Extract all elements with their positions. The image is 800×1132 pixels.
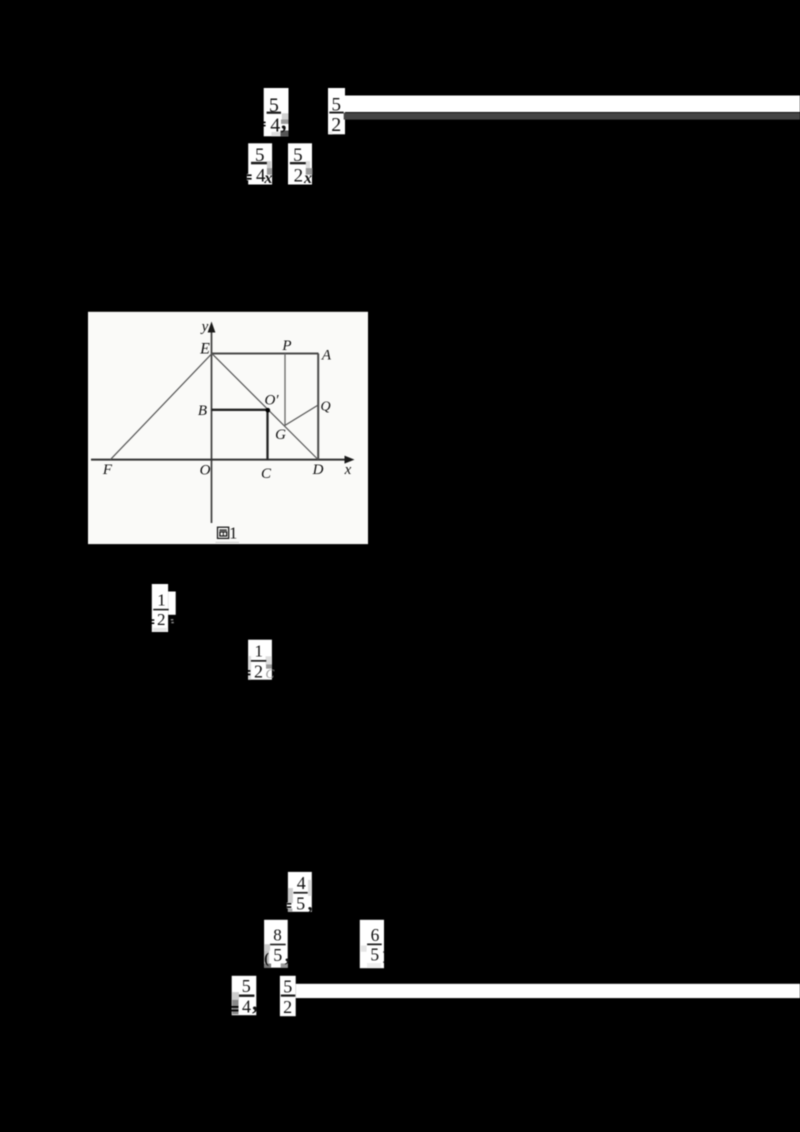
svg-text:,: , [308, 893, 313, 915]
diagonal F-E [110, 354, 212, 460]
svg-text:2: 2 [254, 661, 263, 681]
white band row1 [345, 96, 800, 113]
fraction box B5 1/2 [152, 584, 176, 632]
fraction box B6 1/2 [248, 640, 275, 682]
svg-text:4: 4 [242, 996, 251, 1016]
segment G-Q [285, 405, 318, 426]
svg-text:C: C [265, 666, 274, 681]
svg-text:x: x [303, 170, 312, 187]
segment O'-C [266, 410, 268, 460]
svg-text:2: 2 [283, 997, 292, 1017]
svg-text:2: 2 [331, 114, 341, 136]
svg-text:C: C [261, 466, 272, 482]
x-axis [91, 459, 346, 461]
svg-text:,: , [285, 945, 290, 967]
svg-text:P: P [281, 338, 291, 354]
svg-text:E: E [199, 341, 210, 358]
rectangle right edge A-D [317, 354, 319, 460]
fraction box B3 5/4 row2 [247, 143, 273, 187]
caption faint underline [216, 541, 240, 544]
fraction box B11 5/2 [280, 976, 296, 1017]
svg-text:O′: O′ [264, 393, 279, 409]
segment B-O' [212, 409, 268, 411]
svg-text:B: B [198, 403, 207, 419]
fraction box B1 5/4 row1 [263, 88, 288, 136]
svg-text:5: 5 [273, 945, 282, 965]
svg-text:1: 1 [157, 591, 166, 610]
svg-text:8: 8 [273, 926, 282, 945]
svg-text:5: 5 [242, 976, 251, 996]
white band bottom [296, 984, 800, 998]
svg-text:O: O [200, 463, 211, 479]
y-axis arrowhead [208, 322, 216, 333]
svg-text:4: 4 [297, 873, 306, 893]
x-axis arrowhead [345, 456, 355, 464]
point O' dot [266, 408, 271, 413]
svg-text:G: G [275, 427, 286, 443]
svg-text:Q: Q [320, 400, 330, 415]
gray band row1 [344, 113, 800, 120]
segment P vertical [284, 354, 286, 426]
svg-text:F: F [102, 462, 113, 478]
svg-text:2: 2 [157, 610, 166, 629]
svg-text:5: 5 [370, 944, 379, 964]
svg-text:4: 4 [270, 114, 280, 136]
fraction box B10 5/4 [232, 976, 258, 1017]
svg-text:1: 1 [255, 642, 264, 661]
diagonal E-D [212, 354, 318, 460]
svg-text:x: x [263, 170, 272, 187]
svg-text:A: A [321, 348, 332, 364]
fraction box B4 5/2 row2 [288, 143, 312, 187]
figure white box [88, 312, 368, 544]
svg-text:x: x [344, 462, 352, 478]
svg-text:D: D [312, 462, 324, 478]
fraction box B9 6/5 [360, 920, 384, 968]
svg-text:5: 5 [283, 977, 292, 997]
svg-text:y: y [200, 319, 209, 335]
fraction box B2 5/2 row1 [328, 88, 345, 136]
svg-text:5: 5 [296, 894, 305, 914]
caption glyph tu [218, 527, 229, 538]
y-axis [211, 330, 213, 523]
fraction box B8 8/5 [264, 920, 290, 968]
fraction box B7 4/5 [287, 872, 313, 915]
svg-text:(: ( [264, 951, 269, 967]
svg-text:,: , [281, 109, 287, 134]
svg-text:,: , [252, 990, 258, 1015]
svg-text:2: 2 [294, 165, 304, 186]
rectangle top edge E-A [212, 353, 319, 355]
svg-text:1: 1 [229, 524, 237, 543]
svg-text:6: 6 [371, 925, 380, 945]
